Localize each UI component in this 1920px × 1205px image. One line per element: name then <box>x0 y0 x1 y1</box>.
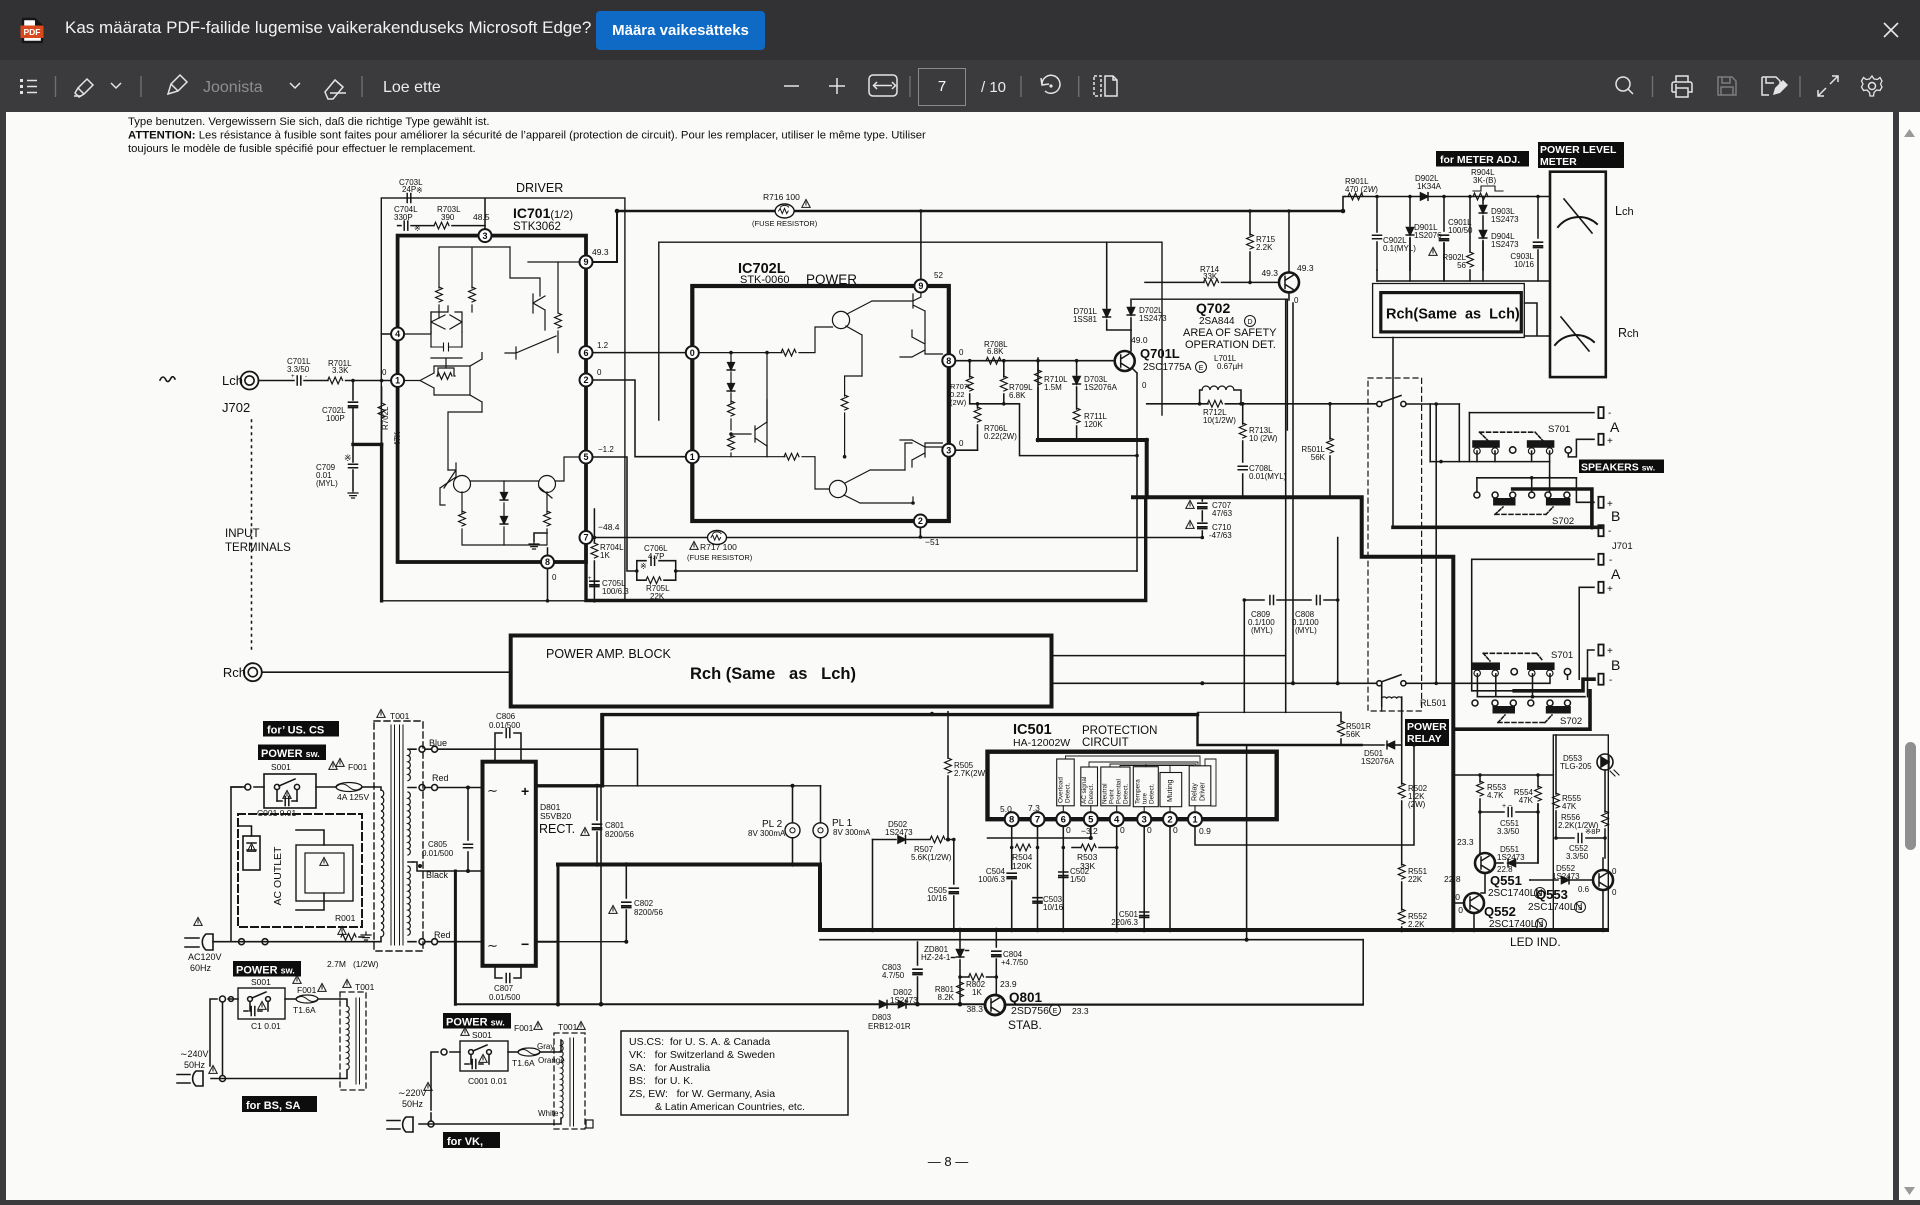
svg-text:(2W): (2W) <box>950 398 967 407</box>
svg-text:DRIVER: DRIVER <box>516 181 563 195</box>
diode D902L <box>1415 174 1442 200</box>
svg-text:HZ-24-1: HZ-24-1 <box>921 953 951 962</box>
svg-text:330P: 330P <box>394 213 413 222</box>
svg-text:0: 0 <box>1612 888 1617 897</box>
svg-text:0: 0 <box>1458 905 1463 915</box>
svg-text:Q552: Q552 <box>1484 904 1516 919</box>
svg-text:49.3: 49.3 <box>1261 268 1278 278</box>
svg-text:ZS, EW: for W. Germany, Asia: ZS, EW: for W. Germany, Asia <box>629 1088 775 1100</box>
chevron2 <box>290 83 300 88</box>
svg-text:6.8K: 6.8K <box>1009 391 1026 400</box>
svg-text:5: 5 <box>583 452 588 462</box>
zener ZD801 <box>921 928 969 1004</box>
junction dots top rail <box>615 209 620 214</box>
svg-text:8V 300mA: 8V 300mA <box>748 829 786 838</box>
S701 switch <box>1473 424 1572 454</box>
label for VK <box>443 1132 500 1148</box>
wire pin2 to IC702 pin1 <box>593 380 686 457</box>
node at C702L <box>351 379 355 383</box>
wires group2 <box>1477 674 1567 697</box>
pin 8 <box>541 548 554 569</box>
svg-text:※: ※ <box>416 186 423 195</box>
capacitor C806 <box>489 712 521 762</box>
IC702 outer thin box <box>659 242 1162 420</box>
svg-text:0.01/500: 0.01/500 <box>422 849 454 858</box>
meter Lch <box>1558 199 1597 233</box>
svg-text:RECT.: RECT. <box>539 822 575 836</box>
svg-text:∼240V: ∼240V <box>180 1049 209 1059</box>
svg-text:& Latin American Countries, et: & Latin American Countries, etc. <box>655 1101 805 1113</box>
svg-text:23.3: 23.3 <box>1072 1006 1089 1016</box>
rotate <box>1041 75 1060 93</box>
svg-text:8: 8 <box>1009 815 1014 826</box>
svg-text:for BS, SA: for BS, SA <box>246 1100 300 1112</box>
svg-text:1S2473: 1S2473 <box>1491 240 1519 249</box>
capacitor C702L <box>322 381 358 445</box>
svg-text:C807: C807 <box>494 984 514 993</box>
S702 second <box>1472 700 1582 727</box>
svg-text:Q701L: Q701L <box>1140 346 1180 361</box>
wire pin8 to bottom rail <box>547 569 549 601</box>
capacitor C704L <box>394 205 421 233</box>
svg-text:S001: S001 <box>251 977 271 987</box>
resistor R502 <box>1398 745 1427 865</box>
svg-text:2: 2 <box>583 375 588 385</box>
svg-text:S001: S001 <box>271 762 291 772</box>
pins 8-1 <box>1005 812 1202 826</box>
capacitor C706L parallel resistor R705L <box>635 544 678 601</box>
svg-text:Neutral: Neutral <box>1102 783 1109 804</box>
AC outlet inner <box>238 826 353 910</box>
resistor R701L <box>328 359 353 384</box>
svg-text:+: + <box>588 576 592 582</box>
svg-text:Red: Red <box>432 773 449 783</box>
svg-text:Driver: Driver <box>1200 782 1207 801</box>
node row under R707L R709L <box>970 404 1137 456</box>
resistor R504 <box>1012 844 1033 871</box>
svg-text:STK3062: STK3062 <box>513 221 561 233</box>
led D553 <box>1560 754 1619 776</box>
resistor R501L <box>1301 402 1333 497</box>
svg-text:-: - <box>1609 675 1612 686</box>
wire under S701 <box>1430 461 1549 463</box>
svg-text:10(1/2W): 10(1/2W) <box>1203 416 1236 425</box>
resistor R712L <box>1147 400 1377 425</box>
relay contact upper <box>1377 396 1406 407</box>
svg-text:for VK,: for VK, <box>447 1136 483 1148</box>
svg-text:F001: F001 <box>348 762 368 772</box>
svg-text:1S2076A: 1S2076A <box>1084 383 1118 392</box>
thick B- wire <box>1393 489 1601 527</box>
svg-text:10 (2W): 10 (2W) <box>1249 434 1278 443</box>
capacitor C803 <box>882 942 922 1004</box>
svg-text:R716 100: R716 100 <box>763 192 800 202</box>
capacitor C709 <box>316 444 358 490</box>
svg-text:2.2K: 2.2K <box>1408 920 1425 929</box>
capacitor C505 <box>927 886 958 930</box>
wire rail to box <box>1344 196 1346 198</box>
transistor Q553 + diode D552 <box>1528 838 1617 930</box>
svg-text:10/16: 10/16 <box>927 894 948 903</box>
diode D501 <box>1361 741 1416 766</box>
wire Rch input to power amp block <box>262 671 510 673</box>
resistor R715 <box>1247 209 1276 284</box>
svg-text:4.7/50: 4.7/50 <box>882 971 905 980</box>
svg-text:56: 56 <box>1457 261 1466 270</box>
capacitor C705L <box>588 576 629 596</box>
svg-text:10/16: 10/16 <box>1514 260 1535 269</box>
svg-text:1/50: 1/50 <box>1070 875 1086 884</box>
svg-text:120K: 120K <box>1084 420 1103 429</box>
bottom rail <box>455 1003 985 1005</box>
label IC702L STK-0060 POWER <box>738 261 857 287</box>
svg-text:+: + <box>521 783 529 799</box>
svg-text:2.7K(2W): 2.7K(2W) <box>954 769 988 778</box>
fuse F001 <box>316 758 374 802</box>
svg-text:5: 5 <box>1088 815 1094 826</box>
svg-text:3K-(B): 3K-(B) <box>1473 176 1496 185</box>
capacitors C707 C710 <box>1186 496 1233 541</box>
resistor R710L <box>1035 361 1069 440</box>
svg-text:47K: 47K <box>1519 796 1534 805</box>
resistor R702L <box>378 387 402 446</box>
svg-text:0: 0 <box>690 348 695 358</box>
svg-text:ture: ture <box>1142 793 1149 804</box>
input terminals dashed line <box>251 420 253 650</box>
capacitor C552 <box>1554 827 1607 861</box>
print <box>1672 76 1692 97</box>
thick feed line <box>1198 714 1362 745</box>
svg-text:0: 0 <box>1142 381 1147 390</box>
resistor R711L <box>1073 408 1107 440</box>
fuse F001 BS <box>285 983 340 1015</box>
svg-text:F001: F001 <box>514 1023 534 1033</box>
pin voltage labels <box>1000 803 1211 836</box>
capacitor C901L <box>1429 195 1473 281</box>
fuse F001 VK <box>508 1021 554 1068</box>
wire Lch input <box>259 380 295 382</box>
thick minus bus <box>558 865 1607 931</box>
two page icon <box>1094 76 1117 96</box>
junction dots on bottom rail <box>556 1002 561 1007</box>
transistor Q701L <box>1115 335 1207 390</box>
svg-text:Orange: Orange <box>538 1056 565 1065</box>
resistor R713L + capacitor C708L <box>1238 402 1286 497</box>
svg-text:C1 0.01: C1 0.01 <box>251 1021 281 1031</box>
svg-text:AC120V: AC120V <box>188 952 222 962</box>
speaker group1 B terminals <box>1576 478 1613 510</box>
LED indicator box <box>1553 735 1608 930</box>
switch S001 BS <box>238 975 301 1031</box>
wires after relay upper <box>1406 403 1459 405</box>
svg-text:47/63: 47/63 <box>1212 509 1233 518</box>
long vertical wires from Q702 <box>1285 300 1287 712</box>
svg-text:S702: S702 <box>1560 716 1582 727</box>
svg-text:OPERATION DET.: OPERATION DET. <box>1185 339 1276 351</box>
AC plug US <box>185 917 222 973</box>
svg-text:0: 0 <box>959 348 964 357</box>
wire pin5 to C706L node <box>593 457 637 571</box>
svg-text:Detect.: Detect. <box>1065 783 1072 803</box>
svg-text:2SC1775A: 2SC1775A <box>1143 362 1192 373</box>
wire pin8 output row <box>955 360 1114 362</box>
label INPUT TERMINALS <box>225 528 291 554</box>
pin5 wiring <box>988 826 1091 838</box>
junction dots on minus bus <box>595 862 600 867</box>
svg-text:Detect.: Detect. <box>1123 784 1130 804</box>
VK mains wires <box>419 1052 554 1124</box>
svg-text:Point: Point <box>1109 789 1116 804</box>
svg-text:STAB.: STAB. <box>1008 1018 1042 1032</box>
svg-text:3: 3 <box>482 231 487 241</box>
svg-text:0.67µH: 0.67µH <box>1217 362 1243 371</box>
svg-text:INPUT: INPUT <box>225 528 260 540</box>
svg-text:T1.6A: T1.6A <box>512 1058 535 1068</box>
highlighter icon <box>74 79 93 97</box>
svg-text:0: 0 <box>382 368 387 377</box>
svg-text:ATTENTION: Les résistance à f: ATTENTION: Les résistance à fusible sont… <box>128 130 926 142</box>
svg-text:C801: C801 <box>605 821 625 830</box>
svg-text:Detect.: Detect. <box>1149 784 1156 804</box>
svg-text:1SS81: 1SS81 <box>1073 315 1098 324</box>
transistor Q702 <box>1261 209 1313 305</box>
svg-text:0.01/500: 0.01/500 <box>489 993 521 1002</box>
svg-text:SA: for Australia: SA: for Australia <box>629 1062 710 1074</box>
svg-text:0.22(2W): 0.22(2W) <box>984 432 1017 441</box>
wire pin6 to IC702 pin0 <box>593 352 686 354</box>
svg-text:POWER LEVEL: POWER LEVEL <box>1540 144 1617 156</box>
svg-text:38.3: 38.3 <box>966 1004 983 1014</box>
svg-text:1: 1 <box>690 452 695 462</box>
svg-text:VK: for Switzerland & Sweden: VK: for Switzerland & Sweden <box>629 1049 775 1061</box>
resistor R714 <box>1145 265 1279 286</box>
svg-text:(FUSE RESISTOR): (FUSE RESISTOR) <box>687 553 753 562</box>
svg-text:48.5: 48.5 <box>473 212 490 222</box>
save disabled <box>1718 77 1736 95</box>
inner function boxes <box>1057 759 1211 807</box>
settings gear <box>1862 76 1883 96</box>
capacitor C902L <box>1373 195 1417 270</box>
resistor R001 <box>327 913 379 969</box>
country list box <box>621 1031 848 1115</box>
svg-text:24P: 24P <box>402 185 416 194</box>
svg-text:C802: C802 <box>634 899 654 908</box>
svg-text:4.7K: 4.7K <box>1487 791 1504 800</box>
svg-text:∼: ∼ <box>487 783 498 798</box>
chevron <box>111 83 121 88</box>
capacitor C703L <box>399 178 423 203</box>
resistor R709L <box>1000 361 1033 404</box>
wire relay coil column <box>1382 683 1402 745</box>
thin return wire under bus <box>820 939 1363 941</box>
svg-text:ERB12-01R: ERB12-01R <box>868 1022 911 1031</box>
svg-text:Gray: Gray <box>537 1042 554 1051</box>
junction dots on ground bus <box>870 928 875 933</box>
svg-text:4: 4 <box>1114 815 1120 826</box>
svg-text:23.3: 23.3 <box>1457 837 1474 847</box>
svg-text:2: 2 <box>918 516 923 526</box>
svg-text:47K: 47K <box>1562 802 1577 811</box>
label for BS,SA <box>242 1096 317 1112</box>
svg-text:7: 7 <box>1035 815 1040 826</box>
svg-text:49.3: 49.3 <box>592 247 609 257</box>
pin8 lower wiring <box>1012 826 1038 930</box>
PDF toolbar <box>0 60 1920 112</box>
transistor Q801 <box>966 979 1088 1032</box>
wire pin9 to top rail <box>593 212 618 263</box>
svg-text:+: + <box>291 374 295 380</box>
svg-text:8: 8 <box>946 356 951 366</box>
pin 0 <box>686 346 699 359</box>
svg-text:A: A <box>1610 419 1620 435</box>
IC501 protection thick box <box>988 752 1277 820</box>
area of safety box <box>1133 299 1288 430</box>
svg-text:B: B <box>1611 657 1620 673</box>
resistor R505 <box>945 712 989 840</box>
speaker group A terminals <box>1469 407 1611 462</box>
svg-text:※: ※ <box>344 453 352 463</box>
svg-text:9: 9 <box>583 257 588 267</box>
svg-text:C001 0.01: C001 0.01 <box>468 1076 507 1086</box>
svg-text:-: - <box>1608 408 1611 419</box>
label POWER RELAY <box>1405 719 1449 746</box>
svg-text:8200/56: 8200/56 <box>605 830 634 839</box>
capacitor C502 <box>1059 826 1117 930</box>
eraser <box>325 80 346 99</box>
svg-text:R702L: R702L <box>381 406 390 430</box>
resistor R901L <box>1345 177 1378 200</box>
draw pen icon <box>168 75 187 94</box>
svg-text:7.3: 7.3 <box>1028 803 1040 813</box>
label POWER sw. (VK) <box>443 1013 511 1029</box>
pdf file icon <box>21 19 44 42</box>
svg-text:-: - <box>305 374 307 380</box>
fuse resistor R716 <box>752 192 818 228</box>
svg-text:+: + <box>1607 584 1613 595</box>
svg-text:BS: for U. K.: BS: for U. K. <box>629 1075 693 1087</box>
svg-text:8.2K: 8.2K <box>938 993 955 1002</box>
pin6 wiring <box>1062 826 1064 930</box>
svg-text:1S2076: 1S2076 <box>1414 231 1442 240</box>
svg-text:CIRCUIT: CIRCUIT <box>1082 737 1129 749</box>
fuse resistor R717 <box>687 531 753 563</box>
svg-text:3.3/50: 3.3/50 <box>287 365 310 374</box>
svg-text:RELAY: RELAY <box>1407 733 1442 745</box>
svg-text:100/6.3: 100/6.3 <box>602 587 629 596</box>
svg-text:3: 3 <box>1142 815 1147 826</box>
svg-text:3.3K: 3.3K <box>332 366 349 375</box>
svg-text:POWER: POWER <box>806 272 857 287</box>
svg-text:E: E <box>1053 1008 1058 1015</box>
switch S001 <box>257 761 337 818</box>
svg-text:+: + <box>1607 436 1613 447</box>
svg-text:D803: D803 <box>872 1013 892 1022</box>
svg-text:0: 0 <box>552 573 557 582</box>
svg-text:S701: S701 <box>1548 424 1570 435</box>
relay contact lower <box>1377 675 1406 686</box>
svg-text:PROTECTION: PROTECTION <box>1082 725 1157 737</box>
svg-text:4: 4 <box>395 329 400 339</box>
svg-text:23.9: 23.9 <box>1000 979 1017 989</box>
diode D901L <box>1406 195 1442 270</box>
svg-text:S5VB20: S5VB20 <box>540 811 571 821</box>
svg-text:T001: T001 <box>558 1022 578 1032</box>
switch S001 VK <box>460 1027 508 1086</box>
svg-text:56K: 56K <box>1346 730 1361 739</box>
SEC_MID <box>1343 142 1639 377</box>
svg-text:1S2473: 1S2473 <box>1552 872 1580 881</box>
resistor R554 <box>1514 773 1542 863</box>
svg-text:S: S <box>1578 905 1583 912</box>
svg-text:POWER sw.: POWER sw. <box>236 965 295 977</box>
svg-text:White: White <box>538 1109 559 1118</box>
svg-text:Rch: Rch <box>1618 326 1639 340</box>
meter Rch <box>1555 317 1594 351</box>
svg-text:D: D <box>1247 319 1252 326</box>
toc icon <box>20 79 37 94</box>
svg-text:9: 9 <box>918 281 923 291</box>
diodes D802 D803 <box>868 988 918 1031</box>
svg-text:IC501: IC501 <box>1013 722 1052 738</box>
svg-text:STK-0060: STK-0060 <box>740 274 790 286</box>
svg-text:10/16: 10/16 <box>1043 903 1064 912</box>
svg-text:POWER AMP. BLOCK: POWER AMP. BLOCK <box>546 647 671 661</box>
svg-text:E: E <box>1199 365 1204 372</box>
power level meter box <box>1550 172 1606 377</box>
lower block boundary <box>930 712 934 716</box>
ground <box>348 490 358 498</box>
svg-text:0: 0 <box>597 368 602 377</box>
wire to pin1 <box>346 380 391 382</box>
wire row above S702 <box>1477 477 1577 479</box>
capacitor C501 <box>1111 826 1148 930</box>
resistor R706L <box>974 404 1017 450</box>
svg-text:Type benutzen. Vergewissern S: Type benutzen. Vergewissern Sie sich, da… <box>128 116 490 128</box>
resistor R553 <box>1477 773 1507 853</box>
wire Q701L emitter down <box>1132 368 1137 571</box>
svg-text:1.5M: 1.5M <box>1044 383 1062 392</box>
svg-text:220/6.3: 220/6.3 <box>1111 918 1138 927</box>
S702 switch <box>1474 492 1574 527</box>
svg-text:S701: S701 <box>1551 650 1573 661</box>
svg-text:0.9: 0.9 <box>1199 826 1211 836</box>
svg-text:Rch(Same as Lch): Rch(Same as Lch) <box>1386 307 1520 323</box>
top supply rail <box>617 210 1343 213</box>
resistor R556 <box>1558 770 1608 838</box>
POWER AMP BLOCK box <box>511 636 1052 707</box>
wire down to group1 <box>1430 404 1459 462</box>
svg-text:120K: 120K <box>1012 861 1032 871</box>
diode D502 + resistor R507 <box>873 820 954 862</box>
thick rail left stub <box>1133 495 1146 499</box>
svg-text:1: 1 <box>1192 815 1198 826</box>
svg-text:AREA OF SAFETY: AREA OF SAFETY <box>1183 327 1277 339</box>
capacitor C802 <box>609 863 664 944</box>
label POWER sw. <box>258 745 326 761</box>
minus <box>784 85 799 87</box>
svg-text:T001: T001 <box>355 982 375 992</box>
svg-text:0.1(MYL): 0.1(MYL) <box>1383 244 1416 253</box>
IC701 outer thin box <box>381 198 625 601</box>
IC702 internals sketch <box>699 293 943 505</box>
secondary wires <box>413 738 638 945</box>
diodes D903L D904L <box>1479 197 1519 271</box>
svg-text:∼220V: ∼220V <box>398 1088 427 1098</box>
svg-text:R001: R001 <box>335 913 356 923</box>
wire relay to S701 second <box>1406 674 1550 683</box>
svg-text:Potential: Potential <box>1116 779 1123 804</box>
svg-text:6.8K: 6.8K <box>987 347 1004 356</box>
